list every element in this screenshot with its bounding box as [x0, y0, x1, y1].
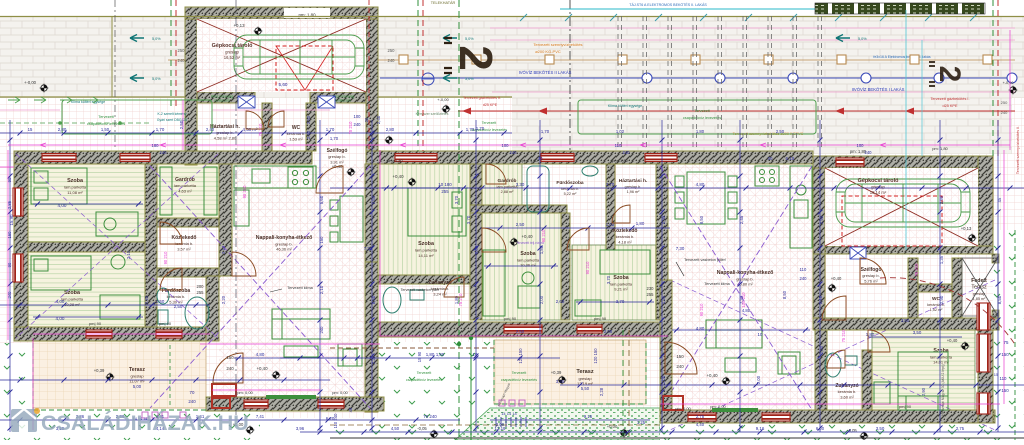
- svg-text:1,80: 1,80: [696, 129, 705, 134]
- green rain area outline left: [62, 100, 212, 134]
- svg-text:Tervezett: Tervezett: [417, 371, 432, 375]
- wall: WC B top: [918, 284, 958, 292]
- slope arrows driveway: [130, 35, 161, 42]
- wall: garage B east wall: [978, 156, 993, 254]
- door Szelfogo B inner: [822, 296, 846, 320]
- level marker SE: [860, 432, 869, 441]
- blue X window garage B bottom: [850, 247, 866, 259]
- svg-text:8,50: 8,50: [997, 295, 1002, 304]
- level marker entry A: [385, 136, 394, 145]
- window B south rooms 1: [504, 325, 542, 333]
- window A north 2: [120, 154, 150, 162]
- svg-text:2,90: 2,90: [939, 295, 944, 304]
- svg-text:1,70: 1,70: [466, 127, 475, 132]
- door Zuhanyzo B lower: [827, 350, 845, 368]
- svg-text:90: 90: [7, 262, 12, 267]
- pink tile field: [0, 98, 1024, 418]
- label Szoba B1: [415, 241, 438, 258]
- door arc Szelfogo B: [860, 258, 886, 284]
- level marker Szelfogo B: [828, 284, 837, 293]
- svg-text:2,10: 2,10: [319, 285, 324, 294]
- svg-text:pm| 90: pm| 90: [504, 316, 517, 321]
- svg-text:Tervezett gázbekötés I.: Tervezett gázbekötés I.: [930, 97, 969, 101]
- brick paving top band: [0, 17, 1024, 98]
- svg-text:2,50: 2,50: [179, 120, 184, 129]
- level marker mid: [442, 105, 451, 114]
- garage B red dashed reserved rect: [842, 196, 942, 246]
- svg-text:3,96: 3,96: [296, 426, 305, 431]
- red corner pier A SW: [212, 384, 236, 408]
- label Terasz B: [576, 369, 594, 391]
- svg-text:2,00: 2,00: [756, 375, 761, 384]
- label Nappali A: [256, 235, 313, 252]
- svg-text:255: 255: [647, 292, 655, 297]
- svg-text:90 210: 90 210: [163, 251, 168, 264]
- svg-text:90 210: 90 210: [242, 185, 247, 198]
- teal ticks on boundary: [520, 14, 977, 21]
- svg-text:2,75: 2,75: [956, 426, 965, 431]
- svg-text:240: 240: [178, 58, 186, 63]
- svg-text:+0,40: +0,40: [947, 338, 958, 343]
- furniture: chair Szoba A2: [100, 255, 140, 319]
- svg-text:Hévizrajzi Mag.sz 30 (AKU 2 lé: Hévizrajzi Mag.sz 30 (AKU 2 léptj): [941, 364, 945, 415]
- water fitting circle 6: [1007, 73, 1017, 83]
- sewage manhole square 4: [618, 55, 627, 64]
- svg-text:7,41: 7,41: [256, 414, 265, 419]
- driveway bottom olive line: [0, 96, 512, 98]
- dim chain right edge: [997, 120, 999, 432]
- magenta dimension line: [32, 338, 34, 430]
- svg-text:9,16: 9,16: [584, 414, 593, 419]
- brown dashed courtyard line: [330, 347, 494, 349]
- dashed pair at courtyard x=625: [622, 330, 624, 440]
- svg-text:2: 2: [933, 66, 966, 83]
- window B south rooms 2: [577, 325, 602, 333]
- svg-text:+0,13: +0,13: [961, 226, 972, 231]
- svg-text:2,40: 2,40: [376, 115, 381, 124]
- dim chain y358: [280, 357, 560, 359]
- label Kozlekedo B: [612, 228, 637, 244]
- svg-text:+0,13: +0,13: [233, 23, 245, 28]
- svg-text:CSALÁDIHÁZAK.HU: CSALÁDIHÁZAK.HU: [41, 410, 249, 435]
- svg-text:2,00: 2,00: [496, 422, 505, 427]
- svg-text:2,40: 2,40: [206, 127, 215, 132]
- water fitting circle 4: [861, 73, 871, 83]
- interior dim line: [672, 329, 810, 331]
- wall: partition Gardrob/hall A: [157, 218, 220, 227]
- wall: partition hall/bathroom A: [157, 268, 220, 277]
- svg-text:75 210: 75 210: [841, 329, 846, 342]
- svg-text:14 14 14: 14 14 14: [501, 411, 517, 416]
- svg-text:d25 KPE: d25 KPE: [483, 103, 498, 107]
- svg-text:2,00: 2,00: [661, 375, 666, 384]
- svg-text:3,70: 3,70: [454, 195, 459, 204]
- svg-text:7,30: 7,30: [364, 246, 373, 251]
- svg-text:7,30: 7,30: [739, 295, 744, 304]
- water fitting circle 3: [788, 73, 798, 83]
- wall: party wall upper: [365, 164, 378, 262]
- magenta dimension line: [182, 100, 184, 150]
- dashed green/red pair left of garage A: [170, 0, 172, 110]
- sewage manhole square 1: [399, 55, 408, 64]
- svg-text:8,50: 8,50: [371, 295, 376, 304]
- room floor Szoba B4 (14.01): [872, 330, 975, 410]
- door arc Szelfogo to living A: [316, 166, 343, 193]
- sewage manhole square 5: [691, 55, 700, 64]
- bottom green arrows row: [336, 430, 992, 434]
- svg-text:70 240: 70 240: [423, 414, 437, 419]
- green dashed vertical terrace A: [169, 345, 171, 408]
- stove A: [288, 167, 313, 188]
- magenta dimension line: [7, 150, 9, 340]
- door arc bathroom A: [160, 268, 182, 290]
- door Szoba B3: [567, 228, 589, 250]
- purple dashed X rooms A: [16, 154, 218, 338]
- svg-text:250: 250: [1001, 100, 1008, 105]
- svg-text:100: 100: [354, 114, 362, 119]
- svg-text:250: 250: [178, 48, 186, 53]
- courtyard garden between units: [378, 342, 494, 440]
- svg-text:1,70: 1,70: [326, 127, 335, 132]
- svg-text:120 150: 120 150: [593, 348, 598, 364]
- navy line under trapezoid: [490, 419, 650, 421]
- level marker living B: [722, 377, 731, 386]
- kitchen counter A: [234, 166, 316, 226]
- svg-text:15,90: 15,90: [9, 214, 14, 226]
- svg-text:10: 10: [758, 332, 763, 337]
- svg-text:100: 100: [857, 143, 865, 148]
- svg-text:150: 150: [7, 231, 12, 239]
- door Szoba B4: [868, 330, 890, 352]
- electric line cyan top: [560, 8, 955, 10]
- water line blue: [380, 77, 1015, 79]
- dim chain y228: [480, 227, 670, 229]
- svg-text:+0,40: +0,40: [831, 276, 842, 281]
- svg-text:1,35: 1,35: [661, 295, 666, 304]
- long green dashed axis x=459: [458, 0, 460, 440]
- level marker Szoba B1: [408, 178, 417, 187]
- svg-text:csapadékvíz levezetés: csapadékvíz levezetés: [683, 116, 721, 120]
- svg-text:5,60: 5,60: [474, 245, 479, 254]
- label Szoba B3: [610, 275, 633, 292]
- svg-text:255: 255: [197, 290, 205, 295]
- svg-text:4,80: 4,80: [696, 182, 705, 187]
- svg-text:+0,40: +0,40: [392, 174, 404, 179]
- green dense planting trapezoid bottom middle: [455, 408, 680, 440]
- sofa A: [272, 309, 330, 339]
- car B in garage: [836, 179, 970, 227]
- svg-text:2,50: 2,50: [516, 222, 525, 227]
- svg-text:4,80: 4,80: [256, 352, 265, 357]
- door WC A: [268, 111, 284, 127]
- svg-text:+0,40: +0,40: [256, 366, 268, 371]
- wall: partition Haztartasi/WC A: [262, 103, 272, 151]
- svg-text:8,50: 8,50: [699, 215, 704, 224]
- window A south 2: [156, 330, 182, 338]
- dim chain x820: [819, 120, 821, 432]
- svg-text:240: 240: [510, 150, 518, 155]
- svg-text:pm: 1,80: pm: 1,80: [522, 158, 538, 163]
- furniture: bed Szoba A2: [31, 256, 91, 290]
- label WC A: [287, 125, 306, 141]
- dim 3,50 Szoba B4: [868, 336, 962, 338]
- fixtures Zuhanyzo B upper: [383, 287, 424, 313]
- wall: partition rooms/hall A: [145, 164, 157, 327]
- window A west 2: [13, 254, 23, 282]
- svg-text:75 210: 75 210: [258, 123, 263, 136]
- svg-text:2,95: 2,95: [661, 215, 666, 224]
- dash-dot property line x570: [569, 0, 571, 150]
- interior dim line: [234, 357, 362, 359]
- furniture: bed Szoba B2: [483, 250, 540, 316]
- svg-text:90 210: 90 210: [699, 303, 704, 316]
- svg-text:10 180: 10 180: [438, 182, 452, 187]
- wall: garage B bottom: [825, 246, 993, 254]
- svg-text:2,25: 2,25: [371, 355, 376, 364]
- dim chain x662: [661, 120, 663, 432]
- svg-text:2,75: 2,75: [696, 414, 705, 419]
- room floor Szoba B1 (14.11): [378, 164, 470, 275]
- section dash-dot axis x=236: [235, 0, 237, 415]
- svg-text:2,45: 2,45: [739, 215, 744, 224]
- svg-text:nyílászáró: nyílászáró: [335, 99, 351, 103]
- level marker living A: [272, 371, 281, 380]
- svg-text:240: 240: [865, 150, 873, 155]
- wall: under Gardrob B: [470, 205, 567, 213]
- svg-text:5,0%: 5,0%: [465, 77, 474, 81]
- sewage manhole square 9: [983, 55, 992, 64]
- svg-text:75 210: 75 210: [914, 263, 919, 276]
- dark planting strip top right: [815, 3, 985, 14]
- svg-text:pm| 90: pm| 90: [252, 158, 265, 163]
- level marker garage B: [968, 234, 977, 243]
- garden area left edge: [0, 343, 33, 440]
- furniture: bed Szoba B4: [874, 352, 948, 410]
- sewage manhole square 2: [472, 55, 481, 64]
- room floor Gardrob B: [480, 164, 522, 205]
- magenta dimension line: [1003, 150, 1005, 404]
- wall: party wall lower: [365, 262, 378, 412]
- level marker Szoba B4: [961, 342, 970, 351]
- svg-text:3,50: 3,50: [913, 330, 922, 335]
- wall: bathroom east wall A: [206, 276, 219, 341]
- svg-text:90: 90: [7, 177, 12, 182]
- svg-text:csapadékvíz levezetés: csapadékvíz levezetés: [501, 378, 537, 382]
- door arc living B: [665, 342, 697, 374]
- label Szelfogo A: [327, 148, 348, 164]
- wall: unit B rooms south wall: [378, 322, 668, 337]
- svg-text:3,70: 3,70: [466, 215, 471, 224]
- label Gardrob A: [174, 177, 197, 193]
- label Szoba B2: [517, 251, 540, 268]
- svg-text:1,80: 1,80: [436, 352, 445, 357]
- wall: partition SzobaB2/SzobaB3: [561, 213, 570, 320]
- dim chain y188: [330, 187, 1024, 189]
- coffee table B: [725, 358, 756, 372]
- svg-text:90 210: 90 210: [585, 261, 590, 274]
- svg-text:Tervezett gázbekötés II.: Tervezett gázbekötés II.: [463, 96, 501, 100]
- armchair A: [338, 344, 362, 366]
- label garage B: [858, 178, 899, 195]
- svg-text:240: 240: [1001, 110, 1008, 115]
- svg-text:pm| 90: pm| 90: [899, 404, 912, 409]
- svg-text:Tervezett: Tervezett: [482, 121, 497, 125]
- furniture: desk Szoba A1: [96, 212, 138, 236]
- svg-text:1,80: 1,80: [539, 245, 544, 254]
- magenta dimension line: [0, 166, 14, 168]
- magenta vertical right: [1009, 30, 1011, 150]
- water fitting circle 2: [715, 73, 725, 83]
- blue X window symbols garage A bottom: [238, 96, 255, 108]
- furniture: bed Szoba B3: [575, 250, 650, 316]
- green utility vertical x471: [470, 334, 472, 440]
- green dashed collector line left: [0, 122, 150, 124]
- svg-text:230: 230: [647, 286, 655, 291]
- svg-text:pm: 1,80: pm: 1,80: [612, 158, 628, 163]
- svg-text:100: 100: [502, 143, 510, 148]
- svg-text:2,00: 2,00: [539, 295, 544, 304]
- svg-text:pm: 0,00: pm: 0,00: [710, 404, 726, 409]
- svg-text:pm: 0,00: pm: 0,00: [237, 390, 253, 395]
- svg-text:Tervezett szennyvízbekötés II.: Tervezett szennyvízbekötés II.: [1016, 126, 1020, 174]
- svg-text:nyílászáró: nyílászáró: [214, 99, 230, 103]
- svg-text:TÁJ.ST6 A ELEKTROMOS BEKÖTÉS I: TÁJ.ST6 A ELEKTROMOS BEKÖTÉS II. LAKÁS: [629, 2, 707, 7]
- green rain area outline right: [578, 100, 816, 134]
- label Szoba B4: [930, 348, 953, 365]
- garage B diagonal cross: [825, 168, 978, 246]
- window garage B north: [836, 158, 864, 166]
- site boundary line top: [0, 16, 1024, 18]
- svg-text:110: 110: [615, 143, 622, 148]
- svg-text:+0,40: +0,40: [706, 373, 718, 378]
- purple planter squares terrace B: [499, 400, 505, 406]
- wall: garage A top: [185, 7, 378, 19]
- wall: entry wing B west wall: [813, 254, 825, 330]
- wall: partition hall/kitchen A: [219, 164, 232, 276]
- svg-text:9,16: 9,16: [756, 426, 765, 431]
- svg-text:3,70: 3,70: [606, 275, 611, 284]
- water valve circle left: [422, 73, 434, 85]
- fixtures bathroom A: tub oval, wc: [157, 288, 209, 329]
- garage A top wall opening: [284, 8, 330, 18]
- svg-text:30: 30: [538, 156, 543, 161]
- terrace door sill B: [712, 408, 758, 412]
- dashed green/red pair right of garage A: [417, 0, 419, 151]
- interior dim line: [576, 301, 654, 303]
- green dashed terrace boundary A: [33, 343, 206, 410]
- svg-text:15 90: 15 90: [417, 351, 422, 362]
- svg-text:Tervezett klíma: Tervezett klíma: [704, 282, 730, 286]
- svg-text:240: 240: [319, 326, 324, 334]
- interior dim line: [33, 203, 143, 205]
- svg-text:pm: 1,80: pm: 1,80: [932, 146, 948, 151]
- svg-text:2,00: 2,00: [819, 345, 824, 354]
- label Fedett Terasz: [971, 278, 987, 301]
- room floor Szoba B2 (10.36): [480, 213, 561, 320]
- wall: unit A west wall: [14, 164, 28, 341]
- wall: unit A south wall (rooms): [14, 327, 219, 341]
- wall: garage A left / entry wing left: [185, 19, 197, 165]
- label Zuhanyzo B lower: [835, 383, 858, 399]
- svg-text:1,70: 1,70: [476, 126, 485, 131]
- svg-text:30: 30: [768, 156, 773, 161]
- svg-text:1,02: 1,02: [616, 129, 625, 134]
- svg-text:4,00: 4,00: [56, 299, 65, 304]
- pink utility trace left: [0, 109, 330, 111]
- wall: partition Szelfogo/WC B: [908, 258, 918, 320]
- svg-text:150: 150: [1001, 388, 1009, 393]
- fixtures Zuhanyzo B lower: [825, 353, 857, 377]
- garden strip right edge: [993, 230, 1024, 440]
- terrace A (Terasz): [33, 338, 206, 408]
- dining table B: [675, 172, 737, 224]
- fixtures bathroom B: tub, sink: [527, 166, 598, 212]
- wall: garage A bottom right piece: [310, 92, 366, 103]
- svg-text:255: 255: [441, 189, 449, 194]
- svg-text:240: 240: [676, 364, 684, 369]
- svg-text:3,30: 3,30: [516, 182, 525, 187]
- sewage manhole square 8: [910, 55, 919, 64]
- door Haztartasi B: [612, 205, 630, 223]
- wall: partition Szoba1/Szoba2 A: [28, 242, 145, 252]
- svg-text:IVÓVÍZ BEKÖTÉS II LAKÁS: IVÓVÍZ BEKÖTÉS II LAKÁS: [519, 70, 572, 75]
- terrace B green dashed border: [494, 340, 646, 404]
- svg-text:Tervezett: Tervezett: [512, 371, 527, 375]
- red pier B: [663, 396, 683, 410]
- svg-text:Tervezett szennyvízbekötés: Tervezett szennyvízbekötés: [533, 42, 582, 47]
- drainage dashed verticals top right: [618, 16, 822, 148]
- svg-text:2,10: 2,10: [126, 250, 131, 259]
- svg-text:110: 110: [800, 267, 807, 272]
- svg-text:2,60: 2,60: [556, 299, 565, 304]
- Fedett Terasz brace: [962, 258, 998, 316]
- svg-text:240: 240: [623, 150, 631, 155]
- furniture: wardrobe Gardrob A: [160, 167, 217, 215]
- label Szoba A1: [64, 178, 87, 195]
- water fitting circle 1: [642, 73, 652, 83]
- svg-text:5,60: 5,60: [279, 82, 288, 87]
- svg-text:1,50: 1,50: [101, 127, 110, 132]
- svg-text:5,60: 5,60: [319, 195, 324, 204]
- svg-text:240: 240: [188, 399, 196, 404]
- green dashed vertical right garden: [1014, 230, 1016, 440]
- bottom long boundary line: [330, 437, 1024, 439]
- label Gardrob B: [497, 178, 519, 194]
- svg-text:75 210: 75 210: [348, 121, 353, 134]
- window A living south 1: [244, 400, 268, 408]
- wall: partition SzobaB1/Zuhanyzo: [378, 275, 470, 284]
- wall: unit B north wall: [366, 151, 813, 164]
- svg-text:5,60: 5,60: [371, 195, 376, 204]
- room floor Gardrob A: [157, 164, 220, 218]
- sewage manhole square 6: [764, 55, 773, 64]
- label Szoba A2: [61, 290, 84, 307]
- svg-text:2,50: 2,50: [516, 329, 525, 334]
- svg-text:1,80: 1,80: [426, 352, 435, 357]
- svg-text:+-0,00: +-0,00: [24, 80, 37, 85]
- svg-text:240: 240: [388, 58, 396, 63]
- door Zuhanyzo B: [444, 277, 464, 297]
- window A west 1: [13, 188, 23, 216]
- svg-text:75: 75: [1004, 340, 1009, 345]
- svg-text:ø200 KG-PVC: ø200 KG-PVC: [535, 49, 561, 54]
- magenta dimension line: [212, 389, 320, 391]
- door arc terrace A: [213, 353, 243, 383]
- svg-text:+0,39: +0,39: [94, 368, 105, 373]
- svg-text:Tervezett klíma: Tervezett klíma: [287, 286, 313, 290]
- level marker Szelfogo A: [347, 168, 356, 177]
- wall: unit B rooms east wall: [656, 164, 668, 320]
